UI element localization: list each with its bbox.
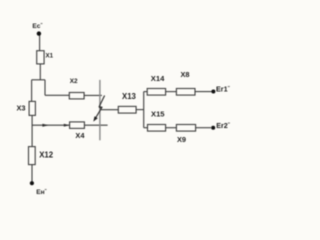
svg-text:X14: X14 [151,74,165,83]
svg-text:X13: X13 [122,92,137,101]
svg-text:X3: X3 [17,103,26,112]
svg-text:Er1″: Er1″ [216,84,231,93]
svg-text:X9: X9 [177,135,186,144]
svg-text:X1: X1 [46,52,54,59]
svg-text:X8: X8 [181,70,190,79]
svg-text:X4: X4 [75,131,85,140]
svg-text:X2: X2 [70,78,78,85]
svg-text:Er2″: Er2″ [216,121,231,130]
svg-text:X12: X12 [39,150,54,159]
svg-text:Eн″: Eн″ [36,188,46,196]
svg-text:Ec″: Ec″ [32,22,42,30]
svg-text:X15: X15 [151,110,165,119]
